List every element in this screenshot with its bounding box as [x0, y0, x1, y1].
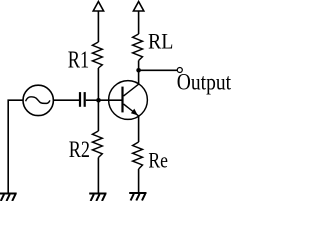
wire R2 bottom to ground	[97, 158, 99, 193]
capacitor C1 right plate	[84, 92, 86, 107]
resistor R2	[92, 131, 102, 158]
svg-text:R1: R1	[68, 47, 89, 73]
wire capacitor to base node	[86, 99, 99, 101]
node output junction dot	[136, 68, 141, 73]
ground (below R2)	[89, 194, 106, 202]
output terminal (open circle)	[177, 68, 182, 73]
transistor Q1 base bar	[121, 87, 123, 113]
wire source to ground (left)	[8, 100, 23, 192]
AC source V1 sine wave	[26, 97, 50, 104]
transistor Q1 emitter lead	[124, 104, 139, 116]
resistor RL	[133, 34, 143, 61]
wire emitter to Re	[138, 116, 140, 142]
resistor Re	[133, 142, 143, 169]
AC source V1 circle	[23, 85, 53, 115]
svg-text:R2: R2	[69, 137, 90, 163]
svg-text:Output: Output	[177, 70, 231, 95]
wire R1 bottom to base node	[97, 68, 99, 131]
resistor R1	[92, 42, 102, 68]
power arrow (left supply, top of R1 branch)	[93, 2, 103, 43]
svg-text:RL: RL	[148, 29, 173, 54]
transistor Q1 collector lead	[124, 84, 139, 96]
wire base	[98, 99, 121, 101]
wire Re bottom to ground	[138, 169, 140, 192]
transistor Q1 circle	[109, 81, 148, 120]
capacitor C1 left plate	[79, 92, 81, 107]
ground (below source)	[0, 194, 17, 202]
node base junction dot	[96, 98, 101, 103]
power arrow (right supply, top of RL branch)	[133, 2, 143, 35]
wire source to capacitor	[53, 99, 79, 101]
transistor Q1 emitter arrowhead	[131, 109, 138, 116]
ground (below Re)	[129, 193, 146, 201]
wire RL bottom to collector	[138, 61, 140, 85]
svg-text:Re: Re	[148, 148, 168, 173]
wire output	[139, 69, 178, 71]
